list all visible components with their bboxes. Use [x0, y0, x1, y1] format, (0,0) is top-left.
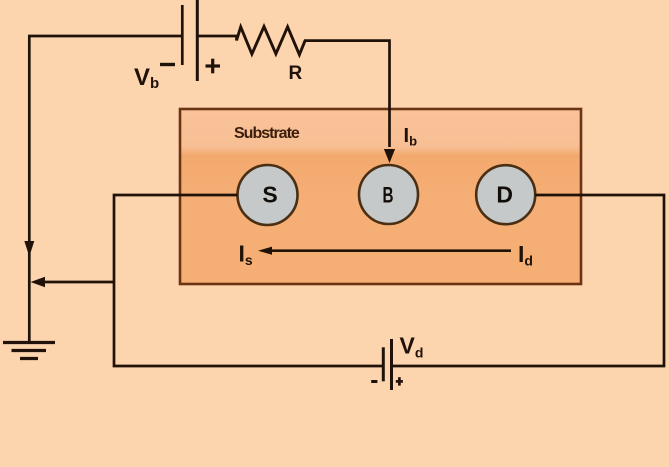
battery Vd positive plate	[390, 339, 393, 390]
battery Vb positive plate	[196, 0, 199, 81]
battery Vd minus sign	[371, 380, 377, 383]
wire resistor to top node	[304, 41, 390, 147]
resistor R	[237, 27, 306, 55]
svg-text:B: B	[383, 182, 394, 207]
battery Vd plus sign	[396, 377, 403, 385]
contact S	[238, 165, 298, 225]
branch arrow into left rail	[44, 281, 114, 284]
wire S to left rail branch	[114, 195, 384, 366]
ground	[3, 343, 55, 359]
battery Vd negative plate	[382, 347, 385, 381]
wire top: battery to left rail	[28, 35, 182, 38]
wire bottom right from battery to right rail	[392, 195, 665, 366]
svg-text:R: R	[289, 63, 303, 84]
battery Vb negative plate	[181, 5, 184, 65]
arrowhead left on branch	[31, 277, 46, 288]
contact B	[359, 165, 418, 224]
arrowhead into B	[384, 149, 395, 163]
arrowhead down on left rail	[24, 241, 34, 257]
wire left rail	[28, 36, 31, 341]
wire battery to resistor	[197, 35, 237, 38]
arrowhead Is	[258, 247, 272, 255]
battery Vb plus sign	[206, 59, 221, 74]
battery Vb minus sign	[160, 63, 175, 66]
svg-text:D: D	[496, 181, 513, 207]
substrate region	[180, 109, 581, 284]
svg-text:S: S	[262, 181, 277, 207]
contact D	[476, 165, 535, 224]
svg-text:Substrate: Substrate	[234, 125, 300, 142]
current arrow Is from Id	[270, 249, 511, 252]
